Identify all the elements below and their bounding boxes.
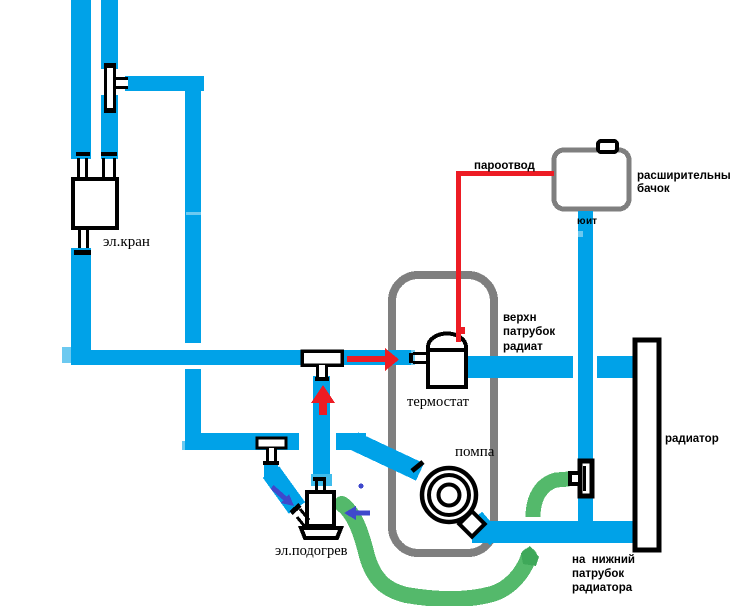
svg-text:пароотвод: пароотвод (474, 160, 536, 172)
navy arrow left from green hose (344, 506, 370, 520)
joint mark on right vertical pipe (186, 212, 201, 215)
wire: right vertical pipe lower part (185, 369, 201, 450)
green hose arrow blob at end (521, 546, 539, 566)
svg-text:радиат: радиат (503, 341, 543, 353)
radiator (635, 340, 659, 550)
wire: pipe P2 second vertical upper segment (101, 0, 118, 69)
steam vent red line пароотвод (456, 171, 554, 176)
wire: left vertical pipe below valve (71, 248, 91, 365)
red arrow right (flow into thermostat) (347, 348, 399, 371)
svg-text:термостат: термостат (407, 394, 470, 410)
green hose short elbow to sensor port (533, 479, 569, 517)
joint collar at heater top (311, 474, 332, 486)
joint mark right pipe bottom (182, 441, 187, 450)
joint cap at thermostat inlet (411, 350, 415, 365)
expansion tank (grey rounded rect) (554, 150, 629, 209)
wire: thermostat outlet pipe left piece (468, 356, 573, 378)
wire: right vertical pipe upper part (185, 76, 201, 343)
hose clamp at thermostat inlet (409, 353, 413, 363)
red arrow up (flow from heater branch) (311, 385, 335, 415)
svg-text:эл.подогрев: эл.подогрев (275, 543, 348, 559)
wire: top horizontal pipe to right elbow (125, 76, 204, 91)
sensor fitting on tank pipe (570, 461, 592, 496)
joint tab left of elbow (62, 347, 71, 363)
wire: bottom horizontal pipe to radiator (472, 521, 633, 543)
thermostat U1 body (428, 334, 466, 388)
hose clamp on pipe P1 end (76, 152, 90, 156)
valve stub right (102, 158, 116, 177)
hose clamp on pipe P2 end (101, 152, 117, 156)
wire: diagonal pipe elbow from T2 down to heater (264, 462, 278, 478)
navy dot (359, 484, 364, 489)
electric heater эл.подогрев (291, 477, 341, 538)
svg-text:ю: ю (577, 216, 586, 227)
electric valve эл.кран box (73, 179, 117, 228)
svg-text:на нижний: на нижний (572, 554, 635, 566)
svg-text:патрубок: патрубок (572, 568, 624, 580)
wire: pipe P1 left vertical (top) (71, 0, 91, 159)
svg-text:радиатора: радиатора (572, 582, 633, 594)
hose clamp below valve (74, 250, 91, 255)
svg-text:ит: ит (586, 216, 597, 227)
svg-text:эл.кран: эл.кран (103, 234, 150, 250)
wire: vertical pipe from expansion tank down (578, 211, 593, 543)
svg-text:патрубок: патрубок (503, 326, 555, 338)
T-fitting T1 on main pipe (302, 351, 342, 381)
navy arrow diagonal into heater (272, 487, 294, 506)
engine block outline (grey rounded rect) (392, 275, 494, 553)
T-fitting on pipe P2 (top) (104, 63, 128, 113)
svg-text:помпа: помпа (455, 444, 495, 460)
wire: pipe P2 second vertical lower segment (101, 95, 118, 159)
wire: diagonal pipe into pump inlet (354, 441, 420, 472)
T-fitting T2 on lower pipe (257, 438, 286, 465)
wire: diagonal pipe from pump outlet to bottom pipe (476, 517, 496, 540)
svg-text:верхн: верхн (503, 312, 537, 324)
svg-text:расширительны: расширительны (637, 170, 731, 182)
valve bottom stub (78, 228, 89, 248)
svg-text:бачок: бачок (637, 183, 670, 195)
wire: main horizontal pipe to thermostat (71, 350, 415, 365)
wire: lower horizontal pipe segment right of vertical (336, 433, 366, 450)
water pump помпа (412, 462, 485, 537)
valve stub left (into эл.кран) (77, 158, 88, 177)
wire: thermostat outlet pipe right piece to radiator (597, 356, 633, 378)
green hose from heater to bottom (long) (342, 504, 529, 599)
tank cap (black) (598, 141, 617, 152)
svg-text:радиатор: радиатор (665, 433, 719, 445)
wire: vertical pipe from T1 down to heater (313, 376, 330, 476)
thermostat stub (413, 352, 426, 364)
wire: lower horizontal pipe from right elbow (185, 433, 299, 450)
